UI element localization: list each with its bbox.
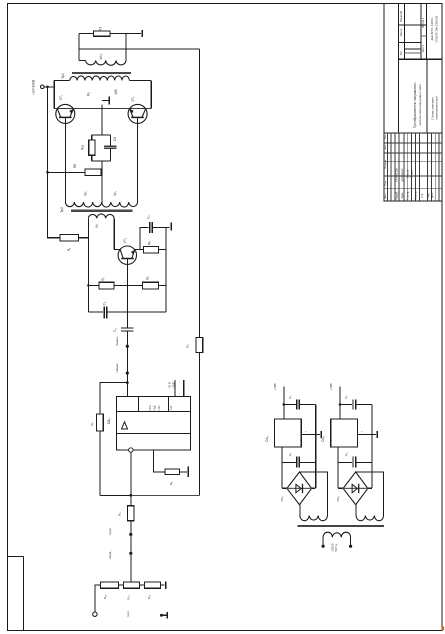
wire bridge bottom down ch1 <box>299 505 301 516</box>
svg-text:Дата: Дата <box>431 192 434 198</box>
capacitor C₅ plate left <box>296 399 298 409</box>
terminal center-tap bar <box>108 97 110 105</box>
wire bus to rail <box>79 48 199 50</box>
wire R7 down <box>99 431 101 495</box>
svg-text:Масштаб: Масштаб <box>399 10 403 22</box>
wire bottom bus left <box>100 494 131 496</box>
terminal Uop bar <box>166 612 168 619</box>
svg-text:ТВ.4640.028: ТВ.4640.028 <box>395 167 398 181</box>
svg-text:№ докум.: № докум. <box>384 159 387 169</box>
terminal T4 circle <box>93 612 97 616</box>
wire cap2 row ch1 <box>282 462 296 464</box>
wire R10-R11 <box>118 584 123 586</box>
svg-text:DA₃: DA₃ <box>321 435 325 441</box>
node junction winding-R5 <box>87 284 89 286</box>
wire R1 top-left lead <box>79 33 94 35</box>
wire Uop tick <box>162 614 167 616</box>
svg-text:Т.контр.: Т.контр. <box>406 191 409 200</box>
transformer Tp3 core <box>298 525 384 527</box>
svg-text:Г1О: Г1О <box>148 405 152 410</box>
winding W1 <box>70 76 108 80</box>
wire C1 stub top <box>110 135 112 146</box>
svg-text:Дата: Дата <box>385 193 387 199</box>
wire cap2 to rail ch2 <box>356 462 372 464</box>
transistor VT3 <box>118 246 136 264</box>
svg-text:Cб: Cб <box>113 137 117 141</box>
svg-text:Г3С: Г3С <box>157 406 161 411</box>
wire rail top <box>198 49 200 338</box>
svg-text:VD₂: VD₂ <box>336 496 340 502</box>
svg-text:частота интегрирующего типа: частота интегрирующего типа <box>418 84 422 126</box>
wire right rail ch2 <box>371 404 373 488</box>
svg-text:Uвых2: Uвых2 <box>115 363 119 372</box>
resistor R6 <box>143 282 159 289</box>
transformer Tp1 core <box>72 72 131 74</box>
svg-text:Н.контр.: Н.контр. <box>414 191 417 201</box>
svg-text:50 Гц: 50 Гц <box>334 544 338 552</box>
wire R5 to R6 <box>114 285 143 287</box>
pin stub +15V <box>183 380 185 397</box>
wire Tp3 left end <box>322 537 324 545</box>
capacitor C4 plate top <box>121 327 133 329</box>
scan artifact <box>442 627 445 631</box>
svg-text:R₁₁: R₁₁ <box>127 595 131 599</box>
pin output wire ch2 <box>357 434 376 436</box>
wire left rail <box>48 87 61 238</box>
node test point 4 <box>129 552 132 555</box>
wire cap2 to rail ch1 <box>299 462 315 464</box>
svg-text:R1: R1 <box>99 27 103 31</box>
wire R2 to winding <box>78 237 88 239</box>
transformer Tp2 core <box>71 210 132 212</box>
wire collector bus <box>54 108 151 110</box>
svg-text:Uмод: Uмод <box>108 551 112 559</box>
svg-text:принципиальная: принципиальная <box>435 96 439 120</box>
svg-text:Утв.: Утв. <box>421 193 424 198</box>
capacitor C₈ plate right <box>355 457 357 468</box>
diode bridge VD₁ <box>287 472 312 505</box>
terminal Uop dot <box>160 614 163 617</box>
svg-text:+15В: +15В <box>273 383 277 390</box>
title block signature section <box>384 4 442 202</box>
resistor R12 <box>145 582 161 588</box>
node junction stub ch1 <box>283 403 286 406</box>
resistor R9 <box>127 506 134 521</box>
wire right rail v <box>165 227 167 312</box>
wire W4 left end down <box>87 218 89 312</box>
svg-text:Тр1: Тр1 <box>61 73 65 79</box>
capacitor C3 plate right <box>106 306 108 318</box>
transistor VT2 <box>128 104 147 123</box>
svg-text:C₇: C₇ <box>344 395 348 398</box>
svg-text:Листов 1: Листов 1 <box>421 17 425 28</box>
node junction bus <box>129 494 132 497</box>
svg-text:Разраб.: Разраб. <box>395 191 398 200</box>
node RC top bar <box>92 134 111 136</box>
terminal T1 bar <box>141 30 143 37</box>
svg-text:R₁₀: R₁₀ <box>103 594 107 599</box>
wire bottom bus right <box>131 494 200 496</box>
capacitor C1 plate bottom <box>104 147 116 149</box>
capacitor C₇ plate left <box>352 399 354 409</box>
wire cap row to rail ch2 <box>356 403 372 405</box>
wire RC to winding <box>101 161 103 202</box>
winding Wos <box>86 60 127 65</box>
capacitor C₆ plate right <box>298 457 300 468</box>
pin bottom stub ch1 <box>281 447 283 488</box>
terminal Tp3 right dot <box>349 545 352 548</box>
wire R6 to rail <box>158 285 166 287</box>
wire W4 right end down <box>113 218 115 249</box>
svg-text:Изм: Изм <box>385 134 387 139</box>
winding Tp3 primary <box>323 532 351 537</box>
terminal output bar ch1 <box>320 431 322 438</box>
wire R8 to terminal <box>180 471 187 473</box>
svg-text:Wₒс: Wₒс <box>99 53 103 59</box>
svg-text:Пров.: Пров. <box>401 192 404 199</box>
svg-text:Масса: Масса <box>399 28 403 36</box>
svg-text:Лист 1: Лист 1 <box>421 44 425 52</box>
wire box top-right segment <box>129 79 151 81</box>
capacitor C4 plate bottom <box>121 330 133 332</box>
title block scale/mass section <box>399 4 443 60</box>
svg-text:Лист: Лист <box>385 145 387 150</box>
svg-text:DA₁: DA₁ <box>107 417 111 424</box>
svg-text:Преобразователь напряжение-: Преобразователь напряжение- <box>413 82 417 128</box>
wire Rsh stub top <box>91 135 93 140</box>
wire Tp3 right end <box>350 537 352 545</box>
capacitor C₈ plate left <box>352 457 354 468</box>
wire branch left <box>100 383 127 414</box>
wire VT1 base down <box>64 117 66 202</box>
pin bottom stub ch2 <box>337 447 339 488</box>
winding secondary ch1 <box>300 516 328 521</box>
pin output wire ch1 <box>301 434 320 436</box>
wire rail bottom <box>198 352 200 495</box>
wire center tap down <box>101 104 103 135</box>
capacitor C1 plate top <box>104 145 116 147</box>
svg-text:+Uп=190В: +Uп=190В <box>32 80 36 95</box>
svg-text:W₁: W₁ <box>87 92 91 96</box>
svg-text:VD₁: VD₁ <box>280 496 284 501</box>
wire R12 to bar <box>160 584 164 586</box>
svg-text:Uоп: Uоп <box>126 611 130 617</box>
winding W3 <box>102 202 138 207</box>
svg-text:Иванов: Иванов <box>406 169 409 178</box>
stabilizer DA₃ box <box>331 419 358 447</box>
wire C2 right <box>152 226 170 228</box>
wire Rb to center <box>100 171 103 173</box>
svg-text:Rш: Rш <box>81 145 85 150</box>
wire box left edge <box>53 80 55 108</box>
resistor R1 <box>94 31 111 36</box>
winding W4 <box>88 214 114 218</box>
svg-text:СОВ.ВТ.190.С29.005: СОВ.ВТ.190.С29.005 <box>434 15 438 42</box>
svg-text:Uупр: Uупр <box>108 528 112 535</box>
wire R1 right lead <box>110 33 141 35</box>
capacitor C₇ plate right <box>355 399 357 409</box>
node junction rail-Rb <box>46 171 49 174</box>
svg-text:W₃: W₃ <box>113 191 117 196</box>
capacitor C3 plate left <box>103 306 105 318</box>
svg-text:Uвых1: Uвых1 <box>115 337 119 346</box>
svg-text:Тр2: Тр2 <box>60 207 64 213</box>
node junction supply rail <box>46 86 49 89</box>
svg-text:дипломный: дипломный <box>401 168 404 181</box>
pin stub +15V ch1 <box>283 386 285 419</box>
side column top line <box>8 555 23 557</box>
wire rail to Rb <box>48 171 85 173</box>
wire VT2 base down <box>137 117 139 202</box>
wire R11-R12 <box>139 584 144 586</box>
wire emitter line down <box>126 331 128 397</box>
op-amp U1 DA1 block <box>117 397 191 451</box>
transistor VT1 <box>56 104 75 123</box>
svg-text:Петров: Петров <box>410 169 413 178</box>
winding W2 <box>65 202 102 207</box>
resistor Rb <box>85 169 101 175</box>
svg-text:VT₃: VT₃ <box>123 237 127 243</box>
wire supply to box <box>44 86 54 88</box>
terminal +Up supply <box>41 85 45 89</box>
terminal T5 bar <box>165 582 167 589</box>
wire winding to VT3 base <box>114 249 120 251</box>
side column right edge <box>22 556 24 630</box>
wire stub to bridge ch2 <box>338 487 343 489</box>
svg-text:Подп.: Подп. <box>385 180 387 186</box>
resistor R8 <box>165 469 180 475</box>
wire VT3 emitter down <box>126 259 128 328</box>
capacitor C2 plate left <box>149 222 151 233</box>
terminal center-tap tick <box>102 99 109 101</box>
svg-text:R₇: R₇ <box>90 422 94 425</box>
resistor R3 <box>196 338 203 353</box>
svg-text:Подп.: Подп. <box>427 192 430 199</box>
wire box right edge <box>150 80 152 108</box>
node junction stub ch2 <box>339 403 342 406</box>
node test point 2 <box>126 372 129 375</box>
pin stub -15V <box>174 380 176 396</box>
resistor R11 <box>124 582 140 588</box>
wire C1 stub bottom <box>110 148 112 161</box>
winding secondary ch2 <box>356 516 384 521</box>
pin DA1 bottom stub <box>154 450 165 472</box>
wire loop right vertical <box>125 34 127 61</box>
wire bridge top to outer ch2 <box>356 472 384 516</box>
wire C3 to rail <box>107 311 166 313</box>
wire bridge top to outer ch1 <box>300 472 328 516</box>
wire loop left vertical <box>78 34 80 61</box>
resistor R5 <box>99 282 114 289</box>
wire stub to bridge ch1 <box>282 487 287 489</box>
winding Wos stub left <box>79 59 86 61</box>
wire VT3 collector right <box>135 249 144 251</box>
svg-text:Лит.: Лит. <box>399 50 403 55</box>
wire cap2 row ch2 <box>338 462 352 464</box>
svg-text:Rк: Rк <box>148 241 152 245</box>
diode bridge VD₂ <box>343 472 368 505</box>
winding Wb <box>107 76 129 80</box>
resistor Rk <box>143 246 158 253</box>
terminal Tp3 left dot <box>322 545 325 548</box>
wire left to C3 <box>88 311 103 313</box>
terminal T3 bar <box>187 467 189 478</box>
wire cap row top ch2 <box>340 403 352 405</box>
svg-text:Дип.МТУ: 4407А: Дип.МТУ: 4407А <box>430 18 434 41</box>
svg-text:Wб: Wб <box>114 89 118 94</box>
svg-text:DA₂: DA₂ <box>265 435 269 441</box>
terminal T2 bar <box>170 223 172 231</box>
wire box top-left segment <box>54 79 69 81</box>
wire Rk to rail <box>158 249 166 251</box>
svg-text:VT₁: VT₁ <box>59 95 63 100</box>
svg-text:VT₂: VT₂ <box>131 96 135 102</box>
wire Rsh stub bottom <box>91 155 93 161</box>
wire C2 left <box>140 227 149 249</box>
stabilizer DA₂ box <box>275 419 302 447</box>
resistor Rsh <box>89 140 95 155</box>
terminal output bar ch2 <box>376 431 378 438</box>
wire row to left terminal <box>95 585 101 612</box>
node test point 1 <box>126 345 129 348</box>
title block name section <box>384 59 442 133</box>
wire rail to bridge ch2 <box>368 487 372 489</box>
capacitor C₅ plate right <box>298 399 300 409</box>
svg-text:Cт2: Cт2 <box>169 405 173 410</box>
svg-text:+15В: +15В <box>329 383 333 390</box>
resistor R7 <box>97 414 104 431</box>
node test point 3 <box>129 533 132 536</box>
svg-text:Rб: Rб <box>73 164 77 168</box>
wire rail to bridge ch1 <box>312 487 316 489</box>
wire DA1 out down <box>130 452 132 506</box>
wire R9 down <box>130 521 132 582</box>
wire cap row top ch1 <box>284 403 296 405</box>
wire bridge bottom down ch2 <box>355 505 357 516</box>
node RC bottom bar <box>92 160 111 162</box>
svg-text:+15В: +15В <box>171 382 175 389</box>
capacitor C₆ plate left <box>296 457 298 468</box>
node junction DA1 input <box>126 381 129 384</box>
resistor R10 <box>101 582 119 588</box>
svg-text:Г2Д: Г2Д <box>152 405 156 410</box>
resistor R2 <box>60 234 78 241</box>
wire right rail ch1 <box>315 404 317 488</box>
wire rail to R5 <box>88 285 99 287</box>
capacitor C2 plate right <box>151 222 153 233</box>
wire cap row to rail ch1 <box>299 403 315 405</box>
pin DA1 output circle <box>129 448 133 452</box>
pin stub +15V ch2 <box>339 386 341 419</box>
